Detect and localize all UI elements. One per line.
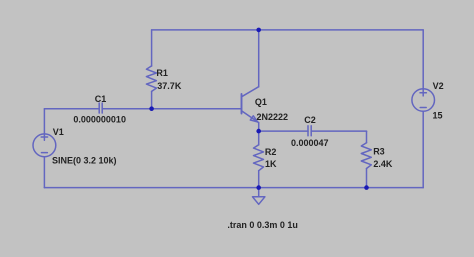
wire top rail — [152, 29, 424, 31]
node junction emitter — [256, 129, 261, 134]
wire emitter node to C2 — [259, 130, 308, 132]
wire R2 top lead — [258, 131, 260, 145]
svg-text:R2: R2 — [265, 147, 277, 157]
wire bottom rail — [44, 187, 423, 189]
svg-text:R1: R1 — [156, 68, 168, 78]
node junction mid rail / R1 — [149, 106, 154, 111]
wire right rail upper (to V2) — [422, 30, 424, 89]
svg-text:C1: C1 — [95, 94, 107, 104]
wire R1 top lead — [151, 30, 153, 66]
svg-text:C2: C2 — [304, 115, 316, 125]
wire C2 to R3 corner — [311, 130, 366, 132]
voltage source V1 — [33, 134, 56, 157]
voltage source V2 — [412, 89, 435, 112]
wire left rail lower (from V1) — [43, 157, 45, 188]
svg-text:2.4K: 2.4K — [373, 159, 393, 169]
svg-text:15: 15 — [433, 111, 443, 121]
svg-text:0.000000010: 0.000000010 — [73, 115, 126, 125]
transistor Q1 — [242, 87, 259, 123]
svg-text:Q1: Q1 — [255, 97, 267, 107]
capacitor C1 — [99, 103, 102, 113]
node junction top rail / collector — [256, 28, 261, 33]
wire R3 bottom lead — [366, 169, 368, 188]
svg-text:0.000047: 0.000047 — [291, 138, 329, 148]
resistor R1 — [146, 66, 156, 92]
resistor R3 — [361, 143, 371, 169]
svg-text:R3: R3 — [373, 147, 385, 157]
wire mid rail left of C1 — [44, 108, 99, 110]
wire R1 bottom lead — [151, 91, 153, 108]
svg-text:1K: 1K — [265, 159, 277, 169]
wire R3 top lead — [366, 131, 368, 143]
node junction bottom rail / R3 — [364, 185, 369, 190]
svg-text:V2: V2 — [433, 81, 444, 91]
node junction bottom rail / R2 / ground — [256, 185, 261, 190]
svg-text:SINE(0 3.2 10k): SINE(0 3.2 10k) — [52, 156, 117, 166]
wire Q1 emitter stub — [258, 123, 260, 132]
wire mid rail C1 to Q1 base — [102, 108, 241, 110]
svg-text:.tran 0 0.3m 0 1u: .tran 0 0.3m 0 1u — [227, 220, 298, 230]
capacitor C2 — [308, 126, 311, 136]
svg-text:37.7K: 37.7K — [157, 81, 182, 91]
resistor R2 — [254, 145, 264, 171]
svg-text:2N2222: 2N2222 — [257, 112, 289, 122]
wire right rail lower (from V2) — [422, 111, 424, 187]
svg-text:V1: V1 — [53, 127, 64, 137]
wire R2 bottom lead — [258, 171, 260, 188]
wire left rail upper (to V1) — [43, 109, 45, 134]
wire Q1 collector to top rail — [258, 30, 260, 87]
ground — [253, 188, 265, 205]
